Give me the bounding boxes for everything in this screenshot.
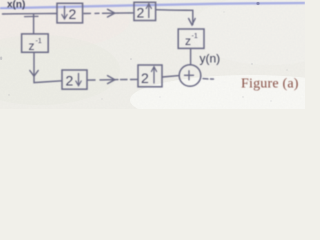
svg-text:x(n): x(n)	[7, 0, 25, 11]
wire top-right corner down to right delay	[156, 10, 193, 25]
svg-text:y(n): y(n)	[200, 52, 221, 66]
svg-text:2: 2	[69, 6, 77, 22]
paper background	[0, 0, 305, 109]
svg-text:Figure (a): Figure (a)	[241, 77, 299, 92]
svg-text:2: 2	[66, 73, 74, 89]
summer S1 (+)	[179, 65, 201, 87]
blue ruled line	[0, 3, 305, 8]
svg-text:z: z	[185, 34, 191, 48]
node branch tick	[25, 15, 39, 17]
downsampler box D2 (2↓)	[62, 70, 87, 89]
delay box Z2 (z^-1) right	[178, 29, 204, 48]
upsampler box U2 (2↑) bottom	[138, 65, 162, 87]
arrowhead down into right delay	[189, 19, 196, 26]
noise specks	[0, 2, 288, 102]
upsampler box U1 (2↑) top	[134, 2, 156, 20]
svg-text:2: 2	[141, 70, 149, 86]
wire input to downsampler	[3, 13, 57, 16]
wire right delay down to summer	[190, 49, 192, 65]
svg-text:z: z	[29, 39, 35, 53]
wire branch down to left delay	[33, 15, 35, 34]
svg-text:-1: -1	[192, 33, 198, 40]
wire left delay down with arrow then corner right	[30, 52, 62, 82]
dashed wire with arrow (bottom)	[88, 76, 138, 84]
wire output dashes	[203, 78, 214, 81]
downsampler box D1 (↓2)	[57, 3, 83, 23]
dashed wire with arrow (top)	[84, 9, 133, 17]
label x(n)	[7, 0, 25, 11]
delay box Z1 (z^-1) left	[22, 34, 49, 53]
wire upsampler to summer	[163, 76, 180, 77]
label y(n)	[200, 52, 221, 66]
caption Figure (a)	[241, 77, 299, 92]
svg-text:2: 2	[137, 5, 145, 21]
svg-text:-1: -1	[36, 38, 42, 45]
